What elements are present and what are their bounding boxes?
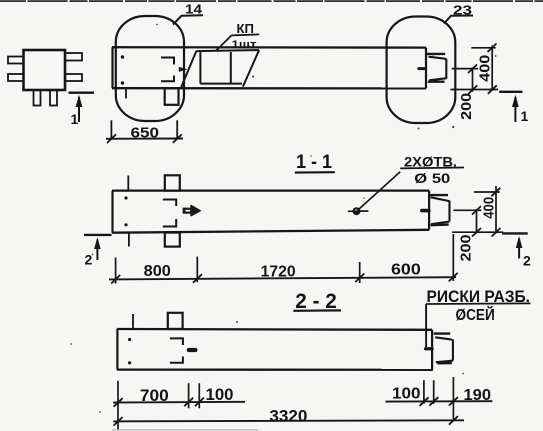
svg-text:Ø 50: Ø 50 (414, 171, 450, 186)
dim 650: line (106, 138, 183, 140)
svg-text:3320: 3320 (269, 406, 307, 425)
svg-text:800: 800 (144, 263, 171, 280)
svg-text:700: 700 (140, 387, 169, 405)
bottom bar rect (1-1) (165, 233, 180, 247)
pill mark (2-2) (187, 348, 198, 352)
ext line bottom right (1-1 dims) (452, 231, 503, 233)
section mark 1 bar (left view) (69, 91, 95, 93)
right end trapezoid (2-2) (435, 337, 453, 362)
svg-text:2: 2 (523, 253, 531, 269)
top scan edge line (0, 0, 543, 2)
ext line top right (1-1 dims) (474, 191, 500, 193)
right end bottom stub (plan) (428, 80, 445, 82)
node dots (2-2) (128, 338, 131, 341)
hole leader (359, 172, 401, 210)
beam left edge (1-1) (111, 191, 113, 233)
right end top stub (2-2) (434, 332, 451, 334)
dims (2-2): dim line right segment (386, 400, 493, 402)
label 14 leader (173, 15, 203, 24)
svg-text:100: 100 (392, 386, 421, 403)
top bar rect (2-2) (168, 313, 183, 329)
embedded part dashed bracket (plan) (161, 58, 174, 82)
top bar rect (1-1) (165, 175, 180, 190)
beam left edge (111, 47, 113, 88)
svg-text:1720: 1720 (261, 264, 296, 281)
beam right end line (2-2) (431, 330, 433, 370)
right bar top (65, 53, 82, 61)
dims (2-2): ext lines (117, 381, 119, 430)
bottom bar rect below beam (plan) (165, 88, 179, 105)
tick above beam (1-1) (127, 176, 129, 191)
beam bottom line (2-2) (117, 368, 433, 370)
dim 650: ext lines (110, 120, 112, 139)
svg-text:ØСЕЙ: ØСЕЙ (456, 305, 495, 324)
tick above beam (2-2) (132, 314, 134, 329)
dims (2-2): ticks row1 (114, 397, 458, 407)
right end top stub (1-1) (430, 194, 448, 196)
dims row (1-1): ticks (111, 273, 458, 284)
ext line bottom right (plan dims) (450, 89, 498, 91)
tick below beam (1-1) (128, 233, 130, 247)
svg-text:14: 14 (185, 3, 202, 17)
scan specks (70, 24, 496, 413)
beam right end line (1-1) (428, 191, 430, 230)
svg-text:200: 200 (458, 93, 475, 120)
ext line mid right (plan dims) (452, 68, 479, 70)
ext line mid right (1-1 dims) (453, 209, 481, 211)
dim line 400 (plan) (491, 45, 493, 90)
svg-text:1: 1 (71, 111, 79, 127)
tick below beam (plan) (125, 88, 127, 98)
ticks (1-1 right dims) (472, 188, 501, 237)
riska pill (2-2) (424, 347, 434, 350)
column body square (24, 50, 66, 90)
KP plate shape (plan) (181, 50, 259, 88)
svg-text:200: 200 (458, 235, 475, 262)
node dots (1-1) (124, 196, 127, 199)
section mark 2 left (1-1): bar (84, 234, 112, 236)
dims (2-2): dim line left segment (113, 401, 245, 404)
label 23 leader (444, 16, 473, 24)
beam right end line (425, 48, 427, 89)
right bar bottom (65, 74, 82, 81)
section mark 2 left (1-1): arrow (96, 240, 98, 261)
section mark 1 arrow (left view) (78, 97, 80, 122)
svg-text:400: 400 (480, 197, 497, 219)
svg-text:650: 650 (131, 125, 160, 141)
embedded part dashed bracket (1-1) (163, 200, 176, 227)
hollow arrow mark (1-1) (183, 205, 200, 215)
svg-text:400: 400 (477, 55, 494, 82)
dim line 400 (1-1) (495, 186, 497, 233)
dim 3320: line (113, 420, 464, 421)
svg-text:600: 600 (391, 261, 421, 278)
dim 3320: ticks (114, 417, 123, 426)
svg-text:190: 190 (464, 387, 492, 404)
svg-text:100: 100 (206, 386, 234, 404)
left bar bottom (8, 74, 24, 81)
section mark 2 right (1-1): bar (502, 232, 528, 234)
beam top line (1-1) (112, 189, 429, 191)
riska pill (1-1) (420, 209, 431, 213)
left bar top (8, 57, 24, 64)
riski leader vertical (425, 304, 427, 347)
section mark 1 right: arrow (514, 97, 516, 122)
embedded part dashed bracket (2-2) (170, 338, 183, 362)
riska pill (plan) (417, 67, 426, 70)
label KP leader (216, 35, 232, 51)
detail loop 23 (stadium) (387, 17, 456, 124)
label 2 holes underline (400, 167, 464, 170)
dims row (1-1): dim line (109, 277, 456, 279)
right end top stub (plan) (427, 53, 445, 55)
dim 650: ticks (107, 134, 116, 143)
svg-text:1шт: 1шт (232, 40, 257, 51)
svg-text:1: 1 (521, 108, 529, 124)
right end bottom stub (1-1) (431, 223, 449, 226)
beam bottom line (1-1) (112, 230, 429, 233)
beam bottom line (112, 87, 426, 90)
svg-text:1 - 1: 1 - 1 (296, 152, 332, 173)
hole symbol (1-1) (353, 207, 361, 215)
bottom bar left (34, 90, 41, 106)
svg-text:2: 2 (85, 252, 93, 268)
section mark 1 right: bar (499, 91, 522, 93)
ticks (plan right dims) (468, 44, 497, 94)
section mark 2 right (1-1): arrow (518, 239, 520, 259)
dim line 200 (1-1) (476, 209, 478, 233)
node dots left end (plan) (121, 55, 124, 58)
right end trapezoid (plan) (429, 57, 447, 81)
svg-text:23: 23 (453, 3, 472, 18)
right end bottom stub (2-2) (437, 362, 451, 365)
bottom bar right (50, 90, 57, 106)
bracket arrow (plan) (179, 67, 188, 72)
dim line 200 (plan) (472, 68, 474, 92)
dims row (1-1): ext lines (115, 258, 117, 284)
detail loop 14 (stadium) (116, 16, 184, 121)
faint bottom smudge (112, 429, 258, 431)
ext line top right (plan dims) (471, 47, 495, 49)
right end trapezoid (1-1) (431, 197, 450, 224)
beam top line (112, 46, 426, 49)
beam top line (2-2) (117, 328, 432, 331)
beam left edge (2-2) (116, 329, 118, 370)
label KP underline (232, 34, 260, 35)
label riski underline (426, 302, 531, 305)
